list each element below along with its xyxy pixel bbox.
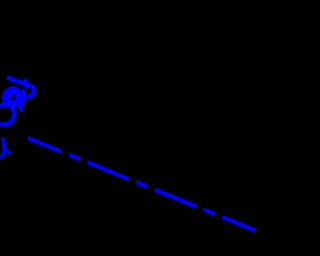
- node D: partial rotated label glyph at left edge (stem, branch, tail): [1, 139, 10, 157]
- node C: rotated label glyph 'c' (open arc, clipped by left edge): [2, 104, 15, 124]
- node A: rotated label glyph 'f' (bar, cross stroke, hook): [9, 78, 34, 97]
- node B: rotated label glyph 'a' (bowl ring, stem, tail): [0, 82, 26, 111]
- wire: blue dash-dot data line running to lower right: [28, 138, 258, 232]
